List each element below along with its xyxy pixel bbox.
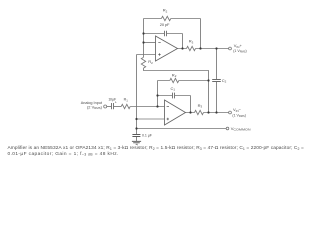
resistor R1	[121, 104, 130, 108]
resistor R3 (top)	[187, 46, 196, 50]
terminal VIN-	[229, 111, 232, 114]
wire: U1B non-inverting input	[137, 118, 165, 120]
op-amp U1B minus mark	[167, 106, 169, 108]
resistor R3 (bottom)	[195, 110, 204, 114]
capacitor C2 plates	[212, 80, 221, 82]
capacitor 20 pF plates	[165, 31, 167, 37]
wire: top feedback R2 branch	[144, 19, 201, 49]
resistor R2 (top feedback)	[161, 16, 170, 20]
svg-text:20 pF: 20 pF	[160, 22, 170, 27]
wire: U1A inverting net left vertical	[143, 19, 145, 58]
terminal VIN+	[229, 47, 232, 50]
node dots	[142, 32, 144, 34]
svg-text:VIN−: VIN−	[233, 107, 242, 113]
op-amp U1A plus mark	[158, 53, 160, 55]
wire: U1B output	[186, 112, 229, 114]
svg-text:R3: R3	[189, 39, 194, 45]
wire: R2 feedback branch (bottom)	[158, 80, 209, 82]
svg-text:C1: C1	[171, 86, 176, 92]
wire: 10uF to R1	[114, 106, 121, 108]
terminal VCOMMON	[226, 127, 229, 130]
ground	[132, 141, 141, 142]
wire: analog input to 10uF	[107, 106, 111, 108]
svg-text:Amplifier is an NE5532A x1 or: Amplifier is an NE5532A x1 or OPA2134 x1…	[8, 145, 304, 151]
capacitor 0.1 uF plates	[132, 135, 140, 137]
svg-text:R2: R2	[163, 8, 168, 14]
svg-text:(2 VRMS): (2 VRMS)	[87, 105, 103, 110]
wire: 0.1uF stem to ground	[136, 137, 138, 141]
op-amp U1B plus mark	[167, 118, 169, 120]
wire: R2 bottom to mid node and down to VIN- node	[144, 68, 209, 112]
svg-text:R3: R3	[198, 103, 203, 109]
resistor R2 (bottom feedback)	[170, 78, 179, 82]
op-amp U1A minus mark	[158, 42, 160, 44]
svg-text:(1 VRMS): (1 VRMS)	[232, 114, 246, 119]
wire: U1A output	[178, 48, 229, 50]
svg-text:0.01-µF capacitor; Gain = 1; f: 0.01-µF capacitor; Gain = 1; f–3 dB = 48…	[8, 151, 119, 157]
wire: U1B feedback left vertical	[157, 81, 159, 107]
terminal: analog input	[104, 105, 107, 108]
svg-text:R1: R1	[124, 98, 129, 103]
capacitor C1 plates	[173, 93, 175, 99]
svg-text:0.1 µF: 0.1 µF	[142, 134, 153, 138]
wire: U1A non-inverting input and vertical to VCOMMON	[137, 55, 156, 135]
svg-text:(1 VRMS): (1 VRMS)	[233, 49, 247, 54]
svg-text:VCOMMON: VCOMMON	[231, 126, 251, 132]
wire: U1A inverting input	[144, 42, 156, 44]
op-amp U1A	[156, 36, 178, 61]
wire: C1 branch	[158, 96, 191, 113]
svg-text:R2: R2	[148, 59, 153, 65]
op-amp U1B	[165, 100, 186, 125]
wire: C2 vertical branch	[216, 49, 218, 113]
wire: VCOMMON rail	[137, 128, 227, 130]
capacitor 10 uF plates	[112, 103, 114, 109]
svg-text:R2: R2	[172, 72, 177, 78]
wire: R1 to U1B inverting input	[130, 106, 164, 108]
svg-text:+: +	[115, 100, 117, 104]
svg-text:C2: C2	[222, 78, 227, 84]
wire: 20 pF branch	[144, 34, 183, 49]
resistor R2 (vertical, input to U1A)	[141, 57, 145, 68]
